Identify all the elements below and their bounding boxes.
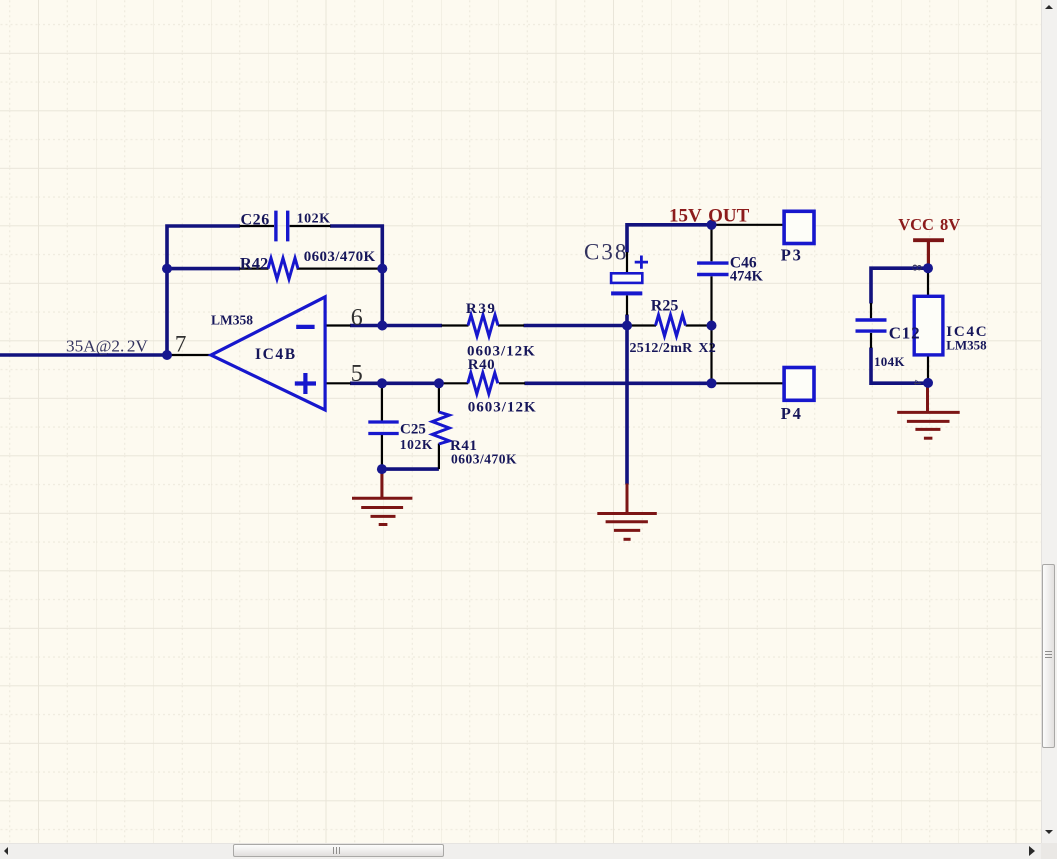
scrollbar down arrow — [1045, 830, 1053, 834]
wire R39 to C38 node — [524, 324, 628, 328]
svg-text:C12: C12 — [889, 324, 921, 343]
pin stub op-amp pin 6 — [325, 324, 350, 326]
vertical scrollbar — [1041, 0, 1057, 843]
capacitor C38 bottom plate — [611, 291, 642, 295]
pin R42 right — [297, 268, 378, 270]
junction node C38 top of R25 row — [622, 321, 632, 331]
pin R39 right — [498, 324, 524, 326]
junction node IC4C bottom — [923, 378, 933, 388]
label C12 — [889, 324, 921, 343]
scrollbar corner — [1041, 843, 1057, 859]
pin P4 — [712, 382, 785, 384]
wire from C26 to right corner down to pin6 node — [330, 226, 382, 326]
label 0603/470K of R41 — [451, 452, 517, 467]
pin number 6 — [351, 305, 363, 331]
junction node pin6 — [377, 321, 387, 331]
label 104K of C12 — [874, 354, 905, 369]
svg-text:0603/12K: 0603/12K — [468, 399, 537, 415]
svg-text:15V OUT: 15V OUT — [669, 205, 750, 226]
junction node right of R25 — [707, 321, 717, 331]
pin stub op-amp output pin 7 — [171, 354, 211, 356]
pin number 7 — [175, 332, 187, 357]
svg-text:0603/470K: 0603/470K — [304, 249, 376, 265]
svg-text:474K: 474K — [730, 269, 764, 285]
svg-text:IC4B: IC4B — [255, 346, 297, 363]
label C26 — [241, 212, 270, 229]
pin IC4C bottom pin 4 — [927, 355, 929, 384]
wire R40 to P4 node — [524, 381, 711, 385]
wire C25 R41 bottom — [382, 467, 439, 471]
pin R39 left — [442, 324, 469, 326]
net label 15V OUT — [669, 205, 750, 226]
pin R42 left — [240, 268, 269, 270]
svg-text:104K: 104K — [874, 354, 905, 369]
label 0603/12K of R39 — [467, 343, 536, 359]
pin C12 top — [870, 303, 872, 318]
label LM358 of IC4B — [211, 313, 253, 328]
svg-text:7: 7 — [175, 332, 187, 357]
pin number 8 rotated — [909, 264, 924, 271]
scrollbar up arrow — [1045, 5, 1053, 9]
label IC4B — [255, 346, 297, 363]
svg-text:4: 4 — [911, 380, 923, 386]
net label VCC 8V — [898, 215, 960, 234]
wire C12 top branch — [871, 268, 928, 303]
horizontal scrollbar thumb — [233, 844, 444, 857]
ground 3 below IC4C — [897, 384, 960, 438]
horizontal scrollbar — [0, 843, 1041, 859]
pin C26 right — [290, 225, 331, 227]
label 102K of C26 — [297, 212, 331, 227]
wire net 35A input — [0, 353, 167, 357]
wire C38 top corner to P3 node — [627, 225, 712, 253]
pin IC4C top pin 8 — [927, 268, 929, 296]
junction node P3 — [707, 220, 717, 230]
svg-text:8: 8 — [909, 264, 924, 271]
svg-text:R39: R39 — [466, 301, 497, 317]
wire link C46 node to P4 node — [710, 326, 712, 384]
pin C46 top — [710, 225, 712, 261]
capacitor C46 plates — [697, 263, 728, 274]
capacitor C26 plates — [276, 211, 288, 242]
svg-text:C25: C25 — [400, 421, 426, 437]
label LM358 of IC4C — [946, 337, 987, 352]
svg-text:6: 6 — [351, 305, 363, 331]
wire pin5 node run — [350, 381, 439, 385]
label R39 — [466, 301, 497, 317]
label 102K of C25 — [400, 437, 433, 452]
svg-text:0603/470K: 0603/470K — [451, 452, 517, 467]
svg-text:C38: C38 — [584, 239, 628, 264]
junction node A feedback left top — [162, 264, 172, 274]
op-amp plus input symbol — [295, 373, 316, 394]
vertical scrollbar thumb — [1042, 564, 1055, 748]
pin C46 bottom — [710, 276, 712, 325]
svg-text:5: 5 — [351, 361, 363, 387]
capacitor C38 plus sign — [635, 256, 648, 269]
pin R25 left — [627, 324, 656, 326]
label 2512/2mR X2 of R25 — [630, 341, 717, 356]
pin number 4 rotated — [911, 380, 923, 386]
pin C38 bottom — [626, 295, 628, 315]
svg-text:2512/2mR X2: 2512/2mR X2 — [630, 341, 717, 356]
label 0603/470K of R42 — [304, 249, 376, 265]
svg-text:LM358: LM358 — [211, 313, 253, 328]
svg-text:R42: R42 — [240, 254, 268, 273]
label R41 — [450, 438, 477, 454]
svg-text:VCC 8V: VCC 8V — [898, 215, 960, 234]
svg-text:102K: 102K — [400, 437, 433, 452]
resistor R39 zigzag — [468, 315, 498, 336]
junction node pin5 — [377, 378, 387, 388]
capacitor C38 polarized top plate — [611, 273, 642, 283]
resistor R42 zigzag — [268, 258, 298, 279]
capacitor C12 plates — [856, 320, 887, 331]
pin C38 top — [626, 252, 628, 273]
label IC4C — [946, 324, 988, 340]
pin P3 — [712, 224, 785, 226]
svg-text:R25: R25 — [651, 297, 679, 314]
op-amp IC4B triangle — [211, 297, 325, 410]
resistor R41 zigzag vertical — [432, 412, 449, 444]
junction node R40 left — [434, 378, 444, 388]
pin R40 left — [439, 382, 468, 384]
pin R25 right — [686, 324, 712, 326]
label 0603/12K of R40 — [468, 399, 537, 415]
junction node P4 — [707, 378, 717, 388]
pin C25 top — [381, 383, 383, 420]
op-amp IC4C body rectangle — [914, 296, 943, 355]
designator C38 — [584, 239, 628, 264]
wire pin6 node to R39 — [350, 324, 442, 328]
svg-text:102K: 102K — [297, 212, 331, 227]
wire R42 right — [378, 267, 383, 271]
scrollbar right arrow — [1029, 846, 1035, 856]
pin stub op-amp pin 5 — [325, 382, 350, 384]
junction node VCC — [923, 263, 933, 273]
svg-text:P3: P3 — [781, 246, 803, 265]
svg-text:35A@2.2V: 35A@2.2V — [66, 336, 148, 355]
wire R42 left — [167, 267, 240, 271]
label C25 — [400, 421, 426, 437]
net label 35A@2.2V — [66, 336, 148, 355]
pin number 5 — [351, 361, 363, 387]
power symbol VCC bar — [913, 240, 944, 266]
wire C38 bottom to node — [625, 315, 629, 326]
svg-text:LM358: LM358 — [946, 337, 987, 352]
svg-text:P4: P4 — [781, 404, 803, 423]
label P3 — [781, 246, 803, 265]
svg-text:C26: C26 — [241, 212, 270, 229]
junction node ground 1 — [377, 464, 387, 474]
pin R41 bottom — [438, 444, 440, 470]
label R25 — [651, 297, 679, 314]
resistor R25 zigzag — [656, 315, 686, 336]
port P3 square — [784, 211, 814, 243]
label R42 — [240, 254, 268, 273]
wire feedback left vertical and top run — [167, 226, 240, 355]
pin C12 bottom — [870, 333, 872, 348]
op-amp minus input symbol — [296, 325, 314, 329]
pin C25 bottom — [381, 435, 383, 469]
ground 1 below C25 — [352, 470, 412, 525]
svg-text:R40: R40 — [468, 357, 495, 373]
label 474K of C46 — [730, 269, 764, 285]
resistor R40 zigzag — [468, 373, 498, 394]
ground 2 below C38 — [597, 484, 657, 540]
label C46 — [730, 255, 757, 272]
port P4 square — [784, 368, 814, 401]
wire C12 bottom branch — [871, 348, 928, 384]
label R40 — [468, 357, 495, 373]
pin R41 top — [438, 383, 440, 412]
pin C26 left — [240, 225, 275, 227]
junction node feedback right — [377, 264, 387, 274]
junction node pin7 — [162, 350, 172, 360]
pin R40 right — [499, 382, 525, 384]
wire C38 node down to ground — [625, 326, 629, 485]
label P4 — [781, 404, 803, 423]
scrollbar left arrow — [4, 847, 8, 855]
capacitor C25 plates — [368, 422, 398, 434]
